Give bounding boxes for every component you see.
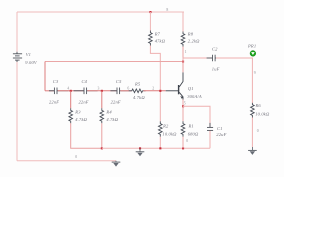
resistor R2 — [159, 121, 163, 136]
svg-text:C4: C4 — [82, 79, 88, 84]
resistor R4 — [100, 108, 104, 123]
wire R1 bottom to rail1 — [182, 137, 184, 149]
transistor Q1 — [166, 72, 184, 99]
wire emitter node to R1 — [182, 106, 184, 121]
chain row wire — [45, 90, 54, 92]
svg-text:10.0kΩ: 10.0kΩ — [162, 132, 177, 137]
wire node2 vertical down to R2 — [159, 91, 161, 122]
svg-text:V1: V1 — [26, 52, 31, 57]
capacitor C5 — [110, 88, 128, 95]
svg-text:R5: R5 — [134, 82, 141, 87]
wire battery bottom down — [16, 62, 18, 161]
capacitor C3 — [49, 88, 69, 95]
svg-text:PR1: PR1 — [247, 44, 256, 49]
wire collector red part — [182, 62, 184, 73]
svg-text:4.7kΩ: 4.7kΩ — [133, 95, 145, 100]
svg-text:4.7kΩ: 4.7kΩ — [75, 117, 87, 122]
svg-text:22nF: 22nF — [79, 99, 89, 104]
wire C1 bottom to rail1 — [209, 131, 211, 149]
wire emitter red part — [182, 100, 184, 107]
svg-text:8: 8 — [166, 8, 168, 12]
svg-text:C5: C5 — [116, 79, 122, 84]
junction node 4 — [70, 90, 72, 92]
svg-text:3: 3 — [98, 86, 100, 90]
svg-text:680Ω: 680Ω — [188, 132, 199, 137]
capacitor C4 — [74, 88, 98, 95]
resistor R6 — [251, 103, 255, 118]
wire R2 bottom to rail1 — [159, 137, 161, 149]
wire R4 bottom to rail1 — [101, 123, 103, 148]
svg-text:1: 1 — [185, 50, 187, 54]
junction top rail / R7 — [149, 11, 151, 13]
wire rail1 — [102, 147, 210, 149]
wire R6 to ground — [251, 118, 253, 148]
resistor R8 — [181, 32, 185, 47]
wire C2 to probe corner — [216, 58, 253, 103]
svg-text:1uF: 1uF — [212, 67, 220, 72]
svg-text:5: 5 — [184, 101, 186, 105]
svg-text:10.0kΩ: 10.0kΩ — [255, 112, 270, 117]
svg-text:Q1: Q1 — [188, 86, 194, 91]
svg-text:300A/A: 300A/A — [187, 94, 202, 99]
ground G1 mid rail — [136, 148, 145, 156]
svg-text:22nF: 22nF — [111, 99, 121, 104]
svg-text:C1: C1 — [217, 126, 223, 131]
svg-text:C2: C2 — [212, 47, 218, 52]
svg-text:22nF: 22nF — [49, 99, 59, 104]
resistor R5 horizontal — [129, 89, 146, 93]
wire top rail — [17, 11, 184, 13]
wire jog up to C2 row — [183, 58, 212, 62]
svg-text:0: 0 — [186, 139, 188, 143]
svg-text:9.00V: 9.00V — [25, 60, 38, 65]
ground G3 under R6 — [248, 147, 257, 155]
wire R3 bottom to rail1 corner — [71, 123, 102, 148]
wire emitter row to C1 — [183, 106, 210, 127]
resistor R3 — [69, 108, 73, 123]
ground G2 end of rail2 — [112, 161, 121, 167]
wire R8 drop from rail — [182, 12, 184, 32]
svg-text:R8: R8 — [187, 31, 194, 36]
svg-text:47kΩ: 47kΩ — [155, 39, 166, 44]
svg-text:R6: R6 — [255, 103, 262, 108]
wire feedback vertical down to chain row — [44, 62, 46, 91]
junction node 2 — [159, 90, 161, 92]
wire R4 drop — [101, 91, 103, 109]
wire R8 bottom to collector junction — [182, 47, 184, 62]
svg-text:2: 2 — [152, 87, 154, 91]
wire R3 drop — [70, 91, 72, 109]
svg-text:9: 9 — [254, 71, 256, 75]
resistor R1 — [181, 121, 185, 136]
svg-text:R2: R2 — [162, 124, 169, 129]
resistor R7 — [149, 31, 153, 46]
wire R7 drop from rail — [149, 12, 151, 31]
svg-text:4: 4 — [67, 86, 69, 90]
junction rail1/ground — [139, 147, 141, 149]
wire R7 bottom jog to base column — [150, 46, 160, 91]
junction rail1/R1 — [182, 147, 184, 149]
svg-text:R3: R3 — [74, 110, 81, 115]
svg-text:0: 0 — [75, 155, 77, 159]
junction node 3 — [101, 90, 103, 92]
junction emitter node 5 — [182, 105, 184, 107]
svg-text:R7: R7 — [154, 31, 161, 36]
svg-text:2.2kΩ: 2.2kΩ — [188, 38, 200, 43]
wire C5 to R5 — [120, 90, 131, 92]
svg-text:R4: R4 — [105, 110, 112, 115]
junction collector node 1 — [182, 61, 184, 63]
wire R5 to node2 junction and base — [143, 90, 165, 92]
svg-text:0: 0 — [257, 129, 259, 133]
capacitor C2 — [207, 55, 222, 62]
probe PR1 — [250, 51, 256, 57]
wire bottom rail 2 — [17, 160, 116, 162]
svg-text:R1: R1 — [188, 124, 194, 129]
wire C4 to node3 — [87, 90, 116, 92]
svg-text:4.7kΩ: 4.7kΩ — [106, 117, 118, 122]
wire C3 to node4 — [58, 90, 84, 92]
capacitor C1 — [207, 123, 213, 135]
wire feedback horizontal to chain — [45, 61, 183, 63]
svg-text:22uF: 22uF — [216, 132, 226, 137]
wire left vertical from battery to top rail — [16, 12, 18, 52]
junction rail1/R2 — [159, 147, 161, 149]
battery V1 — [13, 52, 22, 62]
svg-text:C3: C3 — [53, 79, 59, 84]
junction R4/rail1 — [101, 147, 103, 149]
svg-text:6: 6 — [127, 87, 129, 91]
